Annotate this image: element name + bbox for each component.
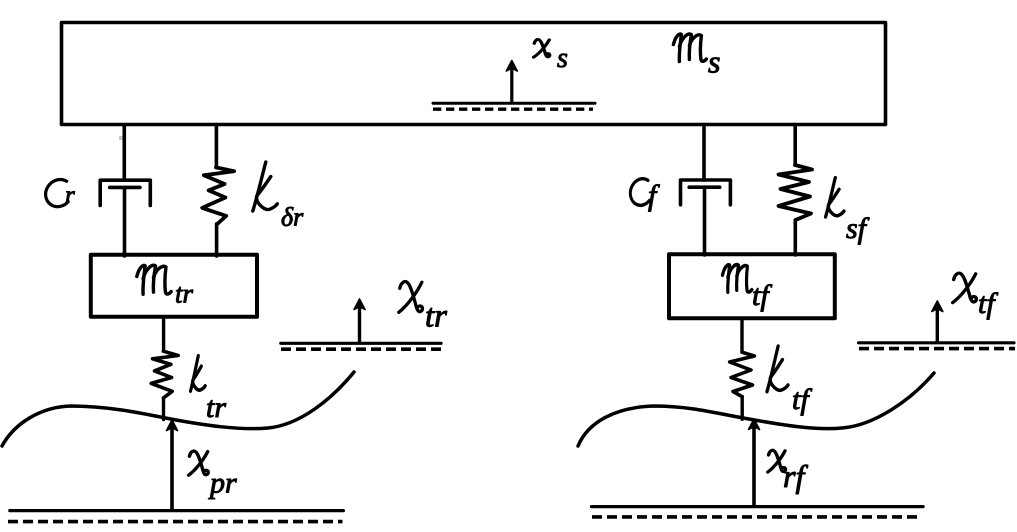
damper Cf cup xyxy=(681,180,731,205)
label x_pr xyxy=(189,451,209,475)
label k_sf xyxy=(826,178,844,217)
label x_tr xyxy=(399,282,423,313)
svg-text:tr: tr xyxy=(425,299,447,335)
spring k_tr zigzag xyxy=(151,351,178,398)
mass M_tf box xyxy=(669,254,835,318)
label C_r xyxy=(46,179,69,206)
reference x_tr solid line xyxy=(281,342,441,345)
svg-text:tr: tr xyxy=(175,279,194,309)
wire: tire spring k_tf bottom rod xyxy=(741,397,744,420)
arrow x_s xyxy=(510,66,513,101)
ground (front input) dashed line xyxy=(592,515,921,519)
reference x_s solid line xyxy=(433,102,595,105)
sprung mass body m_s rectangle xyxy=(62,23,886,125)
stray mark xyxy=(119,136,123,140)
svg-text:sf: sf xyxy=(846,212,870,245)
ground (rear input) solid line xyxy=(10,509,344,512)
wire: tire spring k_tr top rod xyxy=(162,317,165,351)
label x_tf xyxy=(953,273,977,302)
svg-text:tr: tr xyxy=(206,391,226,424)
spring k_sr zigzag xyxy=(202,167,234,224)
wire: damper Cf top rod xyxy=(702,125,706,181)
svg-text:tf: tf xyxy=(978,287,998,320)
wire: tire spring k_tr bottom rod xyxy=(162,398,165,420)
ground (rear input) dashed line xyxy=(8,520,343,524)
arrow x_pr xyxy=(170,428,174,509)
label K_tf xyxy=(767,346,788,392)
label M_tr xyxy=(137,265,171,294)
svg-text:f: f xyxy=(648,179,660,212)
wire: spring k_sf bottom rod xyxy=(793,220,797,255)
wire: spring k_sr bottom rod xyxy=(215,224,219,256)
svg-text:δr: δr xyxy=(281,203,304,232)
wire: spring k_sf top rod xyxy=(793,125,797,166)
arrow x_tr xyxy=(358,306,361,342)
wire: damper Cr top rod xyxy=(123,125,127,181)
label k_sr xyxy=(253,162,277,211)
road profile curve (front) xyxy=(578,373,934,446)
label x_s xyxy=(534,39,550,57)
reference x_tr dashed line xyxy=(281,347,441,351)
svg-text:pr: pr xyxy=(208,467,237,500)
svg-text:s: s xyxy=(708,44,720,80)
damper Cf piston xyxy=(689,185,720,189)
wire: damper Cr bottom rod xyxy=(123,187,127,256)
arrow x_tf xyxy=(936,308,939,342)
road profile curve (rear) xyxy=(2,372,354,446)
reference x_s dashed line xyxy=(433,108,593,111)
damper Cr piston xyxy=(110,186,140,190)
spring k_sf zigzag xyxy=(779,165,813,220)
label x_rf xyxy=(768,450,786,472)
spring k_tf zigzag xyxy=(730,352,755,396)
label m_s xyxy=(673,34,706,62)
svg-text:r: r xyxy=(65,182,75,209)
svg-text:tf: tf xyxy=(752,279,772,312)
wire: spring k_sr top rod xyxy=(215,125,219,168)
wire: damper Cf bottom rod xyxy=(703,187,707,255)
label C_f xyxy=(630,179,649,206)
mass M_tr box xyxy=(91,255,257,317)
svg-text:rf: rf xyxy=(783,458,808,494)
damper Cr cup xyxy=(100,180,150,205)
wire: tire spring k_tf top rod xyxy=(740,318,743,352)
svg-text:s: s xyxy=(557,43,568,74)
reference x_tf solid line xyxy=(859,341,1014,344)
ground (front input) solid line xyxy=(592,505,924,508)
label m_tf xyxy=(722,265,751,293)
arrow x_rf xyxy=(752,427,756,505)
reference x_tf dashed line xyxy=(859,347,1015,351)
svg-text:tf: tf xyxy=(792,383,812,416)
label k_tr xyxy=(191,356,206,391)
